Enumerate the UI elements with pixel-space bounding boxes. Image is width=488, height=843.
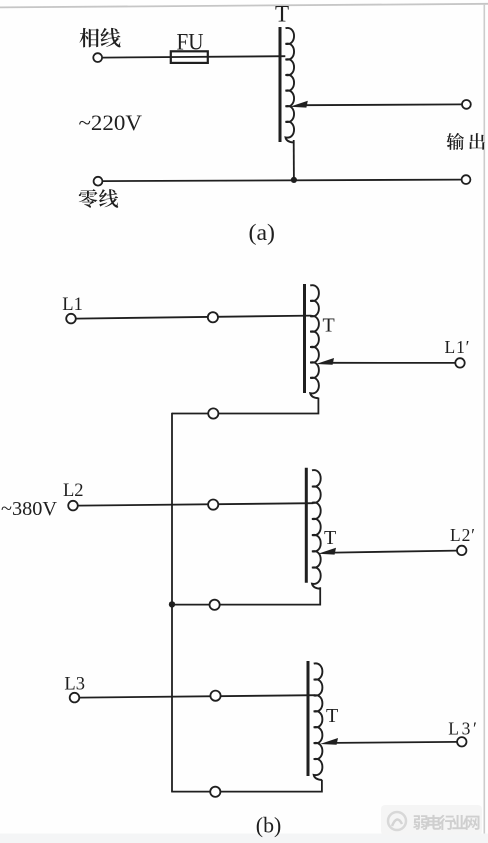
- svg-text:T: T: [275, 2, 289, 27]
- svg-text:(a): (a): [249, 220, 276, 245]
- transformer T2 core: [305, 468, 308, 583]
- connector circle on top link: [208, 408, 218, 418]
- svg-text:FU: FU: [177, 29, 204, 54]
- junction dot (a): [291, 177, 297, 183]
- svg-text:L3: L3: [64, 675, 85, 695]
- svg-text:T: T: [324, 527, 336, 549]
- wire: T2 winding bottom to bus (middle link): [172, 587, 320, 604]
- svg-text:T: T: [326, 705, 338, 727]
- wire: winding bottom down to neutral junction (a): [293, 140, 295, 180]
- label 零线 (neutral net): [79, 189, 118, 208]
- tap wire L2': [334, 551, 457, 553]
- terminal circle L3': [457, 737, 466, 746]
- transformer T1 core: [303, 284, 306, 393]
- transformer T2 winding: [312, 470, 321, 589]
- junction dot on bus: [169, 601, 175, 607]
- terminal circle: 相线 input: [93, 53, 102, 62]
- tap wire L1': [332, 362, 456, 364]
- terminal circle: 零线 left: [94, 177, 103, 186]
- svg-text:~220V: ~220V: [79, 110, 143, 135]
- label 输出 (output): [447, 133, 485, 150]
- svg-text:L3′: L3′: [448, 719, 477, 739]
- connector circle on L3 wire: [210, 691, 220, 701]
- terminal circle: output top: [462, 100, 471, 109]
- connector circle on L2 wire: [208, 500, 218, 510]
- terminal circle L2': [457, 546, 466, 555]
- wire: live terminal through fuse to T core: [102, 56, 285, 57]
- transformer T1 winding: [310, 285, 319, 398]
- wire: L1 to transformer T1: [76, 316, 312, 319]
- svg-text:T: T: [323, 315, 335, 337]
- transformer T3 core: [307, 661, 310, 776]
- tap arrowhead T3: [320, 738, 338, 745]
- transformer T core (a): [279, 27, 282, 142]
- connector circle on bottom link: [210, 787, 220, 797]
- fuse FU: [171, 51, 208, 63]
- svg-text:L2′: L2′: [450, 525, 475, 545]
- wire: L2 to transformer T2: [78, 503, 313, 505]
- wire: neutral line (a): [102, 180, 461, 182]
- svg-text:(b): (b): [256, 813, 281, 838]
- connector circle on middle link: [210, 600, 220, 610]
- wire: T3 winding bottom to bus (bottom link): [171, 780, 322, 792]
- terminal circle L3: [70, 693, 80, 703]
- tap wire L3': [336, 742, 457, 743]
- tap arrowhead (a): [290, 101, 308, 108]
- terminal circle L1': [455, 358, 464, 367]
- transformer T3 winding: [314, 663, 323, 780]
- connector circle on L1 wire: [208, 312, 218, 322]
- svg-text:~380V: ~380V: [1, 498, 57, 520]
- tap arrowhead T1: [316, 358, 334, 365]
- label 相线 (live-wire net): [79, 28, 120, 48]
- tap arrowhead T2: [318, 548, 336, 555]
- transformer T winding (a): [286, 28, 295, 142]
- terminal circle L2: [68, 501, 78, 511]
- wire: T1 winding bottom to bus (top link): [172, 398, 318, 414]
- tap wire (a): [303, 103, 462, 106]
- wire: L3 to transformer T3: [79, 695, 315, 697]
- svg-text:L2: L2: [63, 481, 84, 501]
- terminal circle: output bottom right: [462, 175, 471, 184]
- svg-text:L1′: L1′: [445, 337, 470, 357]
- vertical bus wire: [171, 413, 173, 792]
- terminal circle L1: [66, 314, 76, 324]
- svg-text:L1: L1: [62, 295, 83, 315]
